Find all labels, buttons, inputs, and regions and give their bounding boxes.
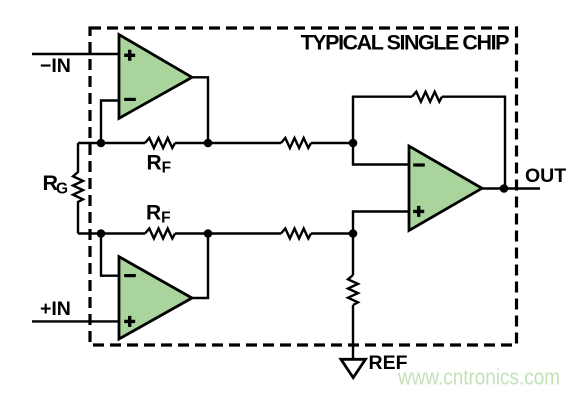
op-amp A1 (top input amp) (119, 35, 192, 119)
wire A2 output to node (191, 234, 208, 299)
node junction upper-left (97, 139, 106, 148)
resistor A2-to-A3 (lower middle) (281, 229, 311, 239)
wire feedback loop left vertical (352, 97, 354, 143)
wire lower node left segment (78, 232, 145, 234)
node junction lower-mid (204, 229, 213, 238)
wire A3 non-inverting input branch (353, 212, 409, 234)
wire A3 inverting input branch (353, 143, 409, 165)
dashed chip boundary (90, 28, 517, 345)
wire feedback loop top left segment (352, 95, 412, 97)
resistor RF (lower) (145, 229, 175, 239)
node junction lower-right (349, 229, 358, 238)
svg-text:TYPICAL SINGLE CHIP: TYPICAL SINGLE CHIP (301, 31, 509, 55)
resistor REF (348, 275, 358, 305)
resistor RF (upper) (145, 138, 175, 148)
wire lower node right segment (311, 232, 353, 234)
svg-text:−IN: −IN (40, 55, 71, 77)
wire A2 inverting input (101, 234, 119, 276)
wire A1 inverting input (101, 101, 119, 144)
resistor RG (gain) (73, 143, 83, 234)
wire feedback loop right vertical (504, 97, 506, 189)
wire upper node left segment (78, 142, 145, 144)
op-amp A3 (output amp) (409, 146, 482, 231)
wire REF upper segment (352, 234, 354, 276)
wire OUT (481, 187, 540, 189)
node junction upper-mid (204, 139, 213, 148)
wire lower node middle segment (175, 232, 281, 234)
REF terminal arrow (341, 359, 366, 377)
node junction output (500, 184, 509, 193)
wire upper node middle segment (175, 142, 281, 144)
svg-text:+IN: +IN (40, 298, 71, 320)
resistor feedback (412, 92, 442, 102)
op-amp A2 (bottom input amp) (119, 257, 192, 339)
wire A1 output to node (191, 77, 208, 143)
wire -IN input (32, 53, 119, 55)
node junction upper-right (349, 139, 358, 148)
svg-text:OUT: OUT (525, 165, 566, 187)
wire feedback loop top right segment (442, 95, 506, 97)
node junction lower-left (97, 229, 106, 238)
svg-text:www.cntronics.com: www.cntronics.com (397, 365, 560, 390)
wire +IN input (32, 320, 119, 322)
wire REF lower segment (352, 305, 354, 359)
wire upper node right segment (311, 142, 353, 144)
resistor A1-to-A3 (upper middle) (281, 138, 311, 148)
